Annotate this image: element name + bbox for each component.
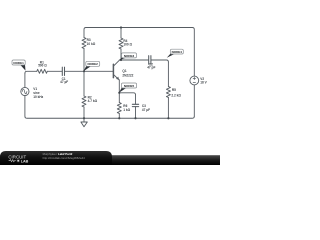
wire C3 bottom lead bbox=[135, 107, 137, 119]
junction dot NODE5 bbox=[118, 92, 120, 94]
wire C2 to NODE4 corner bbox=[151, 60, 169, 62]
wire top rail bbox=[86, 27, 192, 29]
transistor Q1 collector stroke bbox=[113, 60, 119, 66]
wire R3 top lead bbox=[84, 28, 86, 38]
wire collector rail bbox=[119, 59, 148, 61]
junction dot NODE2 bbox=[83, 70, 85, 72]
node NODE1 flag bbox=[20, 65, 25, 71]
svg-text:NODE1: NODE1 bbox=[13, 61, 24, 65]
wire emitter drop bbox=[118, 80, 120, 93]
logo zigzag bbox=[9, 160, 16, 162]
capacitor C3 bbox=[132, 104, 138, 106]
svg-text:2.2 kΩ: 2.2 kΩ bbox=[171, 93, 181, 97]
resistor R1 bbox=[37, 69, 48, 73]
junction dot R6 bottom bbox=[118, 117, 120, 119]
wire V2 bottom lead bbox=[193, 85, 195, 116]
resistor R6 bbox=[117, 103, 121, 114]
capacitor C2 bbox=[149, 56, 151, 65]
svg-text:1 kΩ: 1 kΩ bbox=[123, 108, 130, 112]
svg-text:2N2222: 2N2222 bbox=[122, 73, 133, 77]
junction dot C3 bottom bbox=[134, 117, 136, 119]
junction dot NODE3 bbox=[120, 59, 122, 61]
wire V1 bottom lead bbox=[24, 96, 26, 117]
wire base from V1 corner to R1 bbox=[25, 71, 37, 73]
resistor R2 bbox=[82, 96, 86, 107]
svg-text:100 Ω: 100 Ω bbox=[123, 42, 132, 46]
svg-text:Q1: Q1 bbox=[122, 69, 126, 73]
svg-text:500 Ω: 500 Ω bbox=[38, 64, 47, 68]
wire R6 bottom lead bbox=[118, 114, 120, 119]
resistor R3 bbox=[82, 38, 86, 49]
transistor Q1 base bar bbox=[112, 64, 114, 77]
svg-text:18 V: 18 V bbox=[200, 81, 207, 85]
watermark footer bar bbox=[0, 155, 220, 165]
resistor R5 bbox=[166, 87, 170, 98]
svg-text:NODE5: NODE5 bbox=[124, 84, 135, 88]
watermark logo plate bbox=[0, 151, 112, 165]
node NODE3 flag bbox=[119, 58, 127, 61]
node NODE2 flag bbox=[84, 66, 92, 71]
svg-text:47 µF: 47 µF bbox=[142, 108, 150, 112]
svg-text:NODE2: NODE2 bbox=[88, 62, 99, 66]
label R1 value bbox=[33, 38, 207, 112]
wire R2 top lead bbox=[83, 71, 85, 96]
wire R5 top lead bbox=[167, 62, 169, 87]
transistor Q1 emitter arrow bbox=[116, 77, 119, 80]
svg-text:NODE3: NODE3 bbox=[124, 54, 135, 58]
voltage source V1 bbox=[21, 87, 29, 95]
svg-text:10 kHz: 10 kHz bbox=[33, 95, 43, 99]
junction dot ground bbox=[83, 117, 85, 119]
capacitor C1 bbox=[62, 67, 64, 75]
svg-text:4.7 kΩ: 4.7 kΩ bbox=[88, 99, 98, 103]
node NODE5 flag bbox=[119, 88, 127, 93]
transistor Q1 emitter stroke bbox=[113, 74, 119, 80]
wire V1 top lead bbox=[24, 73, 26, 87]
junction dot R4 top bbox=[120, 26, 122, 28]
logo star box bbox=[17, 159, 20, 162]
resistor R4 bbox=[119, 38, 123, 49]
wire R1 to C1 bbox=[47, 70, 62, 72]
voltage source V2 bbox=[190, 76, 199, 85]
wire C1 to base bbox=[65, 70, 114, 72]
wire V2 top lead bbox=[192, 28, 194, 77]
junction dot R5 bottom bbox=[167, 117, 169, 119]
svg-text:10 kΩ: 10 kΩ bbox=[87, 42, 96, 46]
ground bbox=[83, 118, 85, 122]
svg-text:47 µF: 47 µF bbox=[60, 80, 68, 84]
svg-text:NODE4: NODE4 bbox=[172, 50, 183, 54]
node NODE4 flag bbox=[167, 54, 176, 58]
wire C3 top lead bbox=[135, 95, 137, 104]
svg-text:47 pF: 47 pF bbox=[147, 65, 155, 69]
wire R6 top lead bbox=[118, 93, 120, 103]
wire R5 bottom lead bbox=[167, 98, 169, 119]
svg-text:LAB: LAB bbox=[21, 159, 29, 163]
wire R3 bottom lead bbox=[83, 49, 85, 72]
svg-text:R5: R5 bbox=[172, 88, 176, 92]
wire bottom rail bbox=[25, 116, 194, 118]
svg-text:http://circuitlab.com/c62eg365: http://circuitlab.com/c62eg3652w44 bbox=[43, 156, 86, 160]
svg-text:Murphylee / Lab2 Part2: Murphylee / Lab2 Part2 bbox=[43, 152, 73, 156]
wire R2 bottom lead bbox=[83, 107, 85, 118]
wire R4 top lead bbox=[120, 28, 122, 39]
wire R4 bottom lead bbox=[120, 49, 122, 60]
wire NODE5 to C3 bbox=[119, 93, 135, 95]
